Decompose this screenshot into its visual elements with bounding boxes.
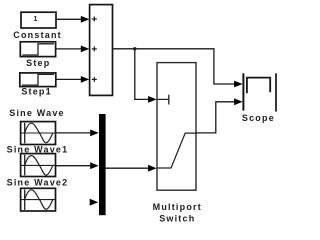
svg-text:Switch: Switch	[159, 213, 195, 223]
svg-text:Scope: Scope	[242, 113, 275, 123]
svg-text:Sine Wave2: Sine Wave2	[7, 177, 69, 187]
svg-text:Constant: Constant	[13, 30, 62, 40]
svg-text:Step1: Step1	[21, 87, 52, 97]
svg-text:Step: Step	[26, 58, 50, 68]
svg-text:Multiport: Multiport	[153, 202, 202, 212]
svg-text:1: 1	[33, 16, 38, 23]
svg-text:Sine Wave: Sine Wave	[9, 108, 64, 118]
